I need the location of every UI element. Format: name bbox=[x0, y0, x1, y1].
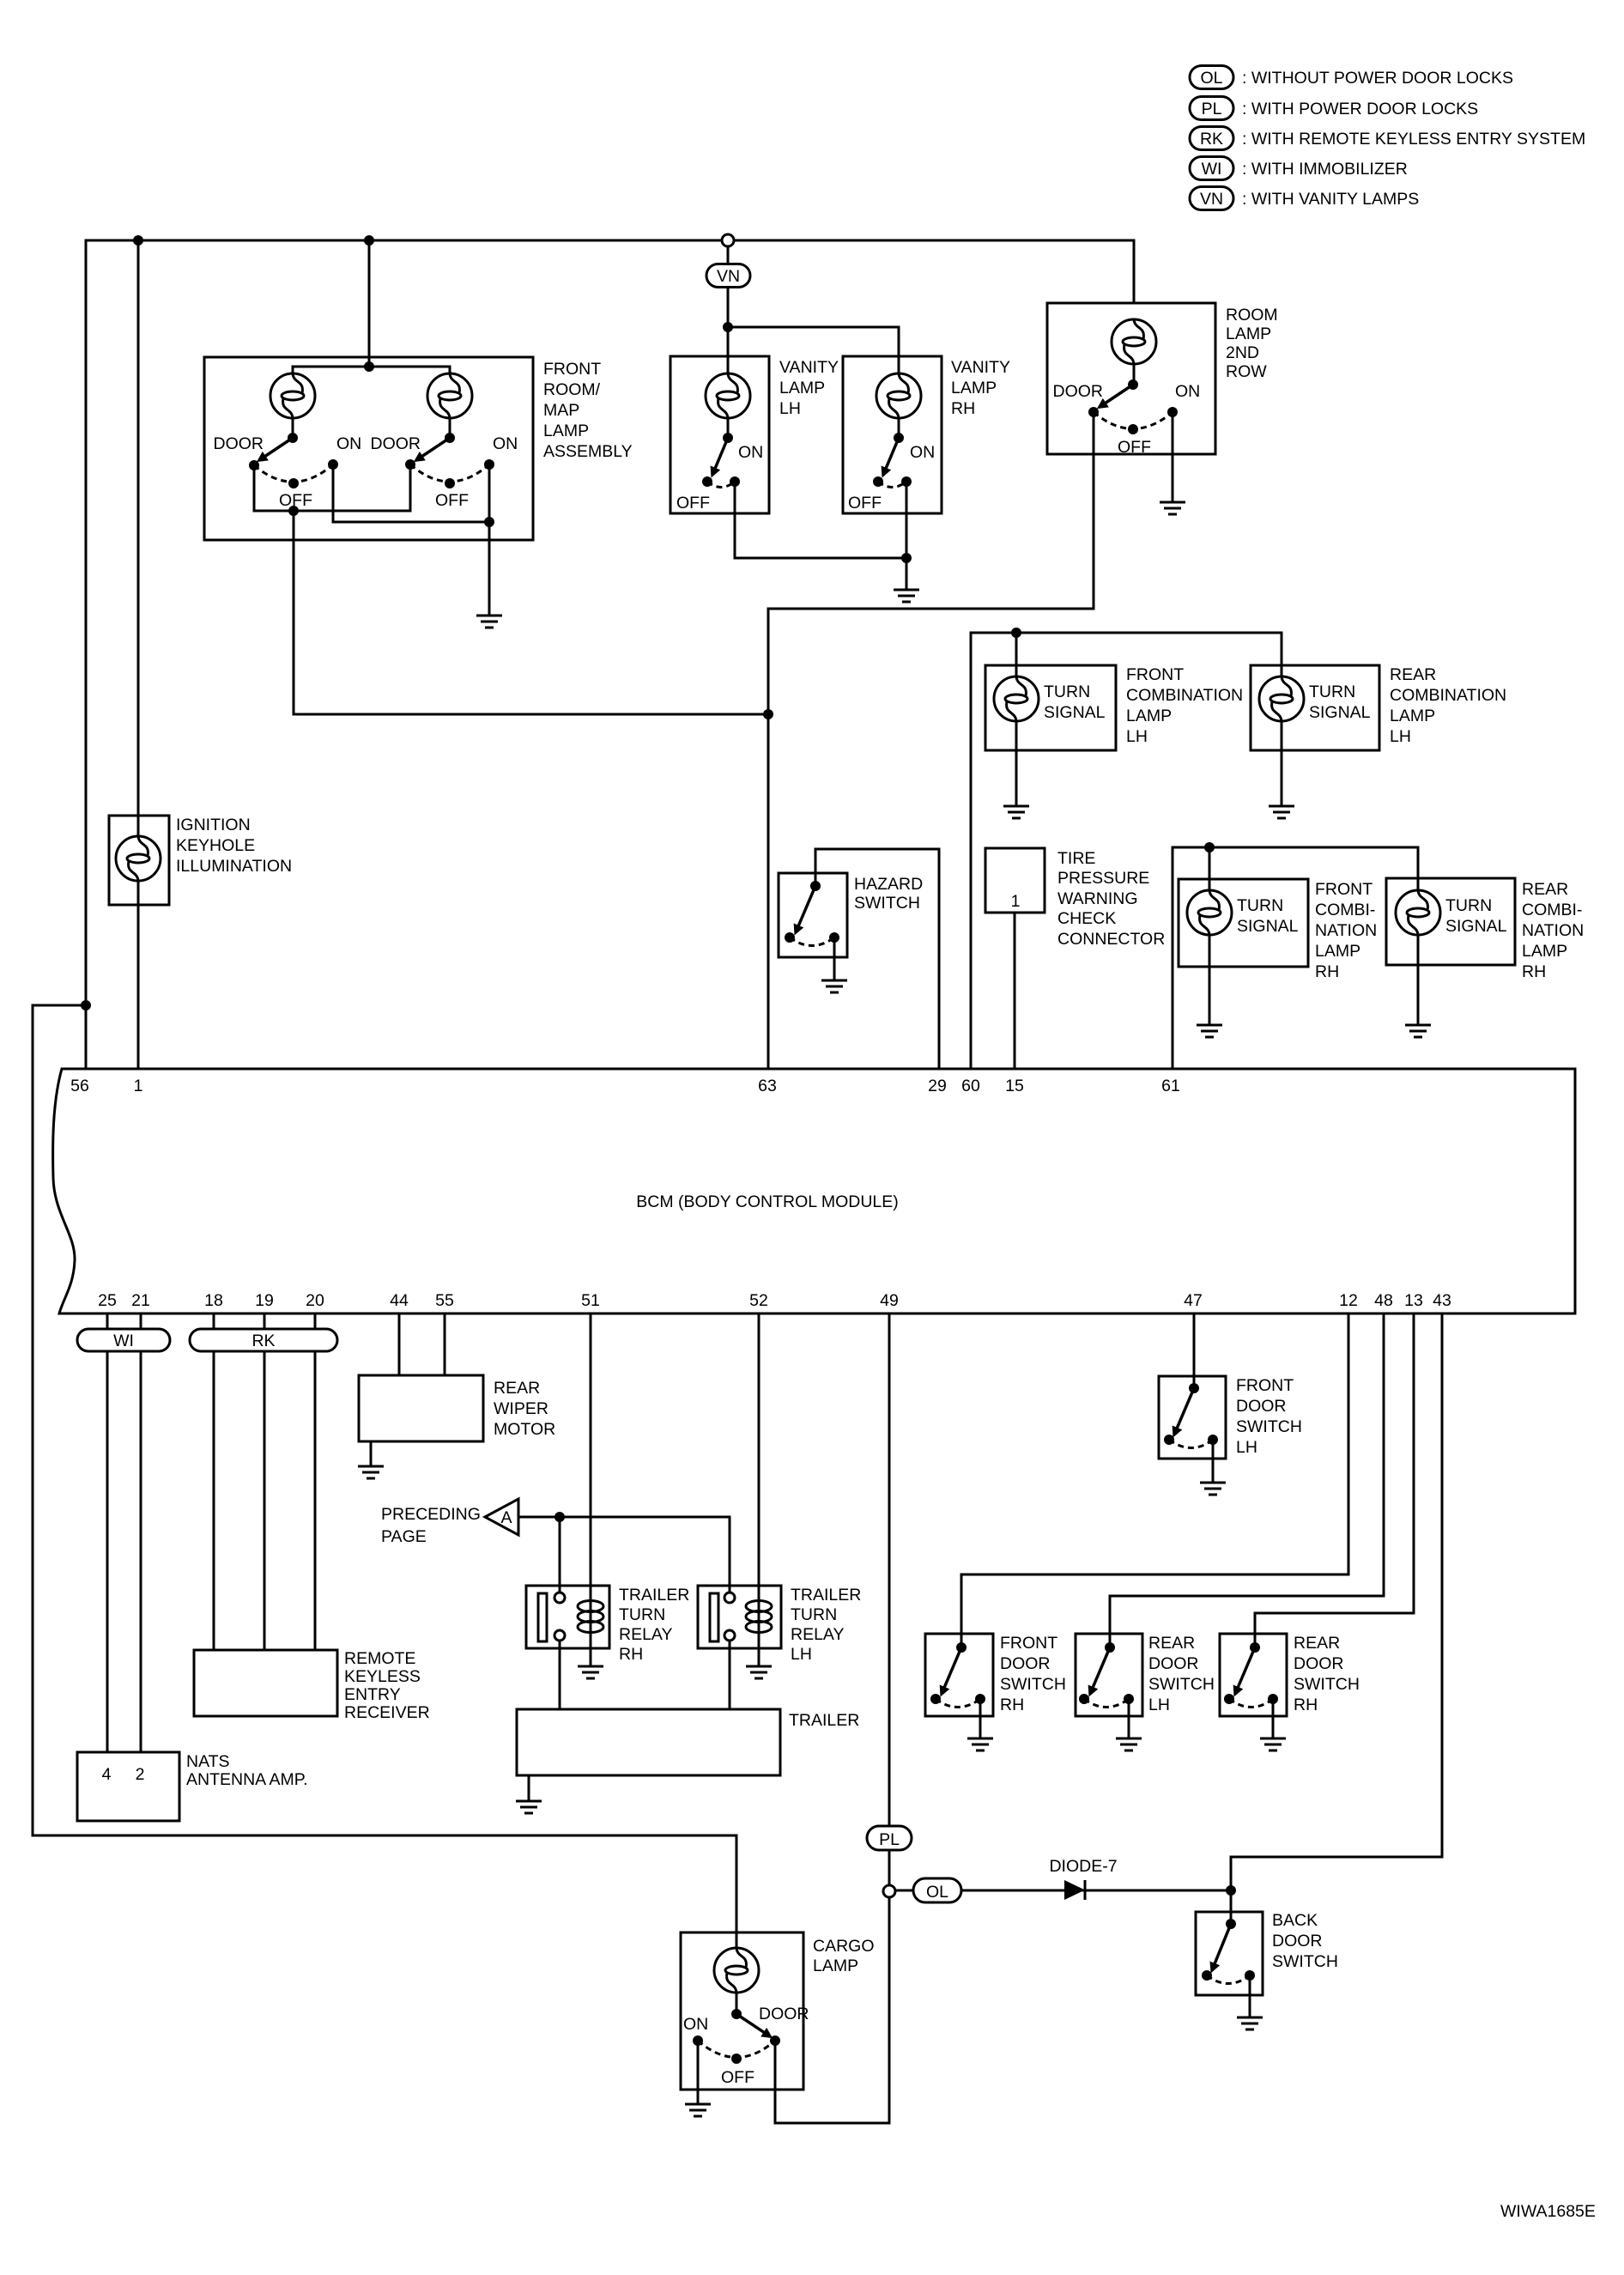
svg-text:PRESSURE: PRESSURE bbox=[1057, 869, 1149, 888]
option symbol OL bbox=[1190, 66, 1233, 89]
rear door switch RH box bbox=[1220, 1634, 1287, 1716]
node map LH OFF contact bbox=[288, 478, 299, 488]
svg-text:19: 19 bbox=[255, 1291, 274, 1310]
switch front door LH dashed throw bbox=[1169, 1440, 1213, 1448]
label rear wiper motor bbox=[494, 1379, 555, 1439]
svg-text:ENTRY: ENTRY bbox=[344, 1685, 401, 1704]
wire pin 48 to rear door switch LH bbox=[1110, 1313, 1384, 1647]
diode D7 bbox=[1064, 1880, 1085, 1900]
svg-text:: WITH POWER DOOR LOCKS: : WITH POWER DOOR LOCKS bbox=[1242, 100, 1478, 118]
wire front room/map lamp feed bbox=[368, 240, 371, 367]
svg-text:DOOR: DOOR bbox=[1053, 382, 1104, 401]
node front door LH common bbox=[1189, 1383, 1199, 1393]
svg-text:RH: RH bbox=[1522, 962, 1546, 981]
svg-text:TURN: TURN bbox=[619, 1605, 665, 1624]
svg-text:REAR: REAR bbox=[1390, 665, 1436, 684]
svg-text:LAMP: LAMP bbox=[1126, 707, 1172, 725]
label front door switch LH bbox=[1236, 1376, 1302, 1457]
svg-text:NATION: NATION bbox=[1315, 921, 1377, 940]
svg-text:A: A bbox=[500, 1508, 512, 1527]
lamp map LH bbox=[270, 373, 315, 418]
switch back door dashed throw bbox=[1207, 1975, 1250, 1984]
wire map DOOR contacts bus bbox=[254, 464, 410, 511]
label front door switch RH bbox=[1000, 1634, 1066, 1714]
switch map LH dashed throw bbox=[254, 464, 333, 482]
svg-text:OFF: OFF bbox=[435, 491, 469, 510]
switch vanity LH lever bbox=[712, 438, 728, 475]
relay LH top contact bbox=[724, 1592, 735, 1603]
relay RH contact bar bbox=[538, 1593, 547, 1641]
switch front door RH lever bbox=[942, 1647, 961, 1694]
svg-text:MAP: MAP bbox=[543, 401, 579, 420]
svg-text:TURN: TURN bbox=[1237, 896, 1283, 915]
wire trailer ground lead bbox=[528, 1775, 530, 1801]
rear combination lamp LH box bbox=[1251, 665, 1379, 750]
svg-text:LAMP: LAMP bbox=[1390, 707, 1435, 725]
svg-text:RK: RK bbox=[1200, 130, 1223, 149]
switch front door RH dashed throw bbox=[936, 1699, 980, 1708]
ground relay RH coil bbox=[578, 1666, 603, 1678]
svg-text:OL: OL bbox=[926, 1883, 948, 1902]
svg-text:RH: RH bbox=[1000, 1696, 1024, 1714]
svg-text:DOOR: DOOR bbox=[1294, 1654, 1344, 1673]
label hazard switch bbox=[854, 875, 923, 913]
svg-text:OFF: OFF bbox=[676, 494, 710, 513]
node map ON ground junction bbox=[484, 517, 494, 527]
svg-text:TURN: TURN bbox=[1309, 682, 1355, 701]
ground map lamp assembly bbox=[476, 616, 502, 628]
svg-text:RELAY: RELAY bbox=[791, 1625, 845, 1644]
wire pin 18 to keyless receiver bbox=[213, 1313, 215, 1650]
wire front turn LH ground lead bbox=[1015, 721, 1018, 806]
node vanity LH ON contact bbox=[730, 476, 740, 487]
node pin63 junction bbox=[763, 709, 773, 719]
switch cargo dashed throw bbox=[698, 2041, 775, 2058]
svg-text:CONNECTOR: CONNECTOR bbox=[1057, 930, 1165, 949]
wire rear turn RH ground lead bbox=[1417, 935, 1420, 1025]
wire relay RH contact feed bbox=[559, 1517, 561, 1592]
switch rear door LH lever bbox=[1090, 1647, 1110, 1694]
svg-text:WARNING: WARNING bbox=[1057, 889, 1138, 908]
wire pin 13 to rear door switch RH bbox=[1255, 1313, 1414, 1647]
ground front door switch LH bbox=[1200, 1483, 1226, 1495]
svg-text:ILLUMINATION: ILLUMINATION bbox=[176, 857, 292, 876]
node room DOOR contact bbox=[1088, 407, 1099, 417]
connector RK bbox=[190, 1329, 337, 1351]
node turn RH junction bbox=[1204, 842, 1215, 852]
wire map LH lamp to switch bbox=[292, 418, 294, 438]
node front door RH common bbox=[956, 1642, 967, 1653]
svg-text:LH: LH bbox=[791, 1645, 812, 1664]
switch map LH lever bbox=[259, 438, 293, 460]
svg-text:FRONT: FRONT bbox=[1315, 880, 1373, 899]
node back door common bbox=[1226, 1919, 1236, 1929]
svg-text:COMBI-: COMBI- bbox=[1522, 901, 1582, 919]
wire pin 61 to turn signal RH bus bbox=[1173, 847, 1418, 1069]
svg-text:VN: VN bbox=[1200, 190, 1223, 209]
wire junction to back door switch bbox=[1230, 1890, 1233, 1924]
svg-text:DOOR: DOOR bbox=[1272, 1932, 1323, 1950]
wire room lamp DOOR output / pin 63 riser bbox=[768, 412, 1094, 1069]
wire pin 49 to PL connector bbox=[888, 1313, 891, 1885]
option symbol PL bbox=[1190, 97, 1233, 120]
svg-text:DOOR: DOOR bbox=[371, 434, 421, 453]
svg-text:48: 48 bbox=[1374, 1291, 1393, 1310]
svg-text:PRECEDING: PRECEDING bbox=[381, 1505, 481, 1524]
svg-text:TRAILER: TRAILER bbox=[791, 1586, 861, 1605]
svg-text:RECEIVER: RECEIVER bbox=[344, 1703, 430, 1722]
node front door LH left contact bbox=[1164, 1435, 1174, 1445]
svg-text:: WITHOUT POWER DOOR LOCKS: : WITHOUT POWER DOOR LOCKS bbox=[1242, 69, 1513, 88]
svg-text:REAR: REAR bbox=[1294, 1634, 1340, 1653]
wire map ON contacts bus bbox=[333, 464, 489, 522]
ground front turn RH bbox=[1197, 1025, 1222, 1037]
svg-text:COMBINATION: COMBINATION bbox=[1126, 686, 1243, 705]
label tire pressure warning check connector bbox=[1057, 849, 1165, 949]
wire vanity RH lamp to switch bbox=[898, 418, 900, 438]
label rear door switch RH bbox=[1294, 1634, 1360, 1714]
node diode junction bbox=[1226, 1885, 1236, 1896]
svg-text:61: 61 bbox=[1161, 1077, 1180, 1095]
lamp rear turn signal RH bbox=[1396, 890, 1440, 935]
label NATS antenna amp bbox=[186, 1752, 308, 1789]
trailer turn relay RH box bbox=[526, 1586, 609, 1648]
svg-text:TURN: TURN bbox=[1044, 682, 1090, 701]
wire room lamp to switch bbox=[1133, 364, 1136, 385]
node map RH DOOR contact bbox=[405, 459, 415, 470]
svg-text:: WITH VANITY LAMPS: : WITH VANITY LAMPS bbox=[1242, 190, 1419, 209]
svg-text:REAR: REAR bbox=[1148, 1634, 1195, 1653]
ground rear door switch LH bbox=[1116, 1738, 1142, 1750]
svg-text:LH: LH bbox=[779, 399, 801, 418]
node rear door RH left contact bbox=[1224, 1694, 1234, 1704]
node front door RH left contact bbox=[930, 1694, 941, 1704]
ground rear wiper motor bbox=[358, 1466, 384, 1478]
lamp ignition keyhole bbox=[116, 836, 161, 881]
node room ON contact bbox=[1167, 407, 1178, 417]
node map lamp feed junction bbox=[364, 361, 374, 372]
wire map ON ground lead bbox=[488, 522, 491, 616]
wire pin 19 to keyless receiver bbox=[264, 1313, 266, 1650]
switch cargo lever bbox=[736, 2014, 770, 2036]
switch front door LH lever bbox=[1174, 1388, 1194, 1435]
svg-text:SIGNAL: SIGNAL bbox=[1044, 703, 1106, 722]
relay LH bottom contact bbox=[724, 1630, 735, 1641]
svg-text:REMOTE: REMOTE bbox=[344, 1649, 415, 1668]
switch vanity RH lever bbox=[883, 438, 899, 475]
node map RH switch common bbox=[445, 433, 455, 443]
label turn signal (front LH) bbox=[1044, 682, 1106, 722]
node rear door LH right contact bbox=[1124, 1694, 1134, 1704]
node vanity RH ON contact bbox=[901, 476, 912, 487]
svg-text:PL: PL bbox=[1202, 100, 1222, 118]
svg-text:43: 43 bbox=[1433, 1291, 1451, 1310]
node front door LH right contact bbox=[1208, 1435, 1218, 1445]
wire room ON ground lead bbox=[1172, 412, 1174, 502]
option symbol WI bbox=[1190, 157, 1233, 180]
node PL-OL connector circle bbox=[883, 1885, 895, 1897]
label preceding page bbox=[381, 1505, 481, 1546]
svg-text:60: 60 bbox=[961, 1077, 980, 1095]
svg-text:SIGNAL: SIGNAL bbox=[1309, 703, 1371, 722]
svg-text:SWITCH: SWITCH bbox=[1236, 1417, 1302, 1436]
wire cargo lamp to switch bbox=[736, 1993, 738, 2014]
wire rear door LH ground lead bbox=[1128, 1699, 1130, 1738]
ground cargo lamp bbox=[685, 2104, 711, 2116]
svg-text:ON: ON bbox=[1175, 382, 1200, 401]
label rear door switch LH bbox=[1148, 1634, 1215, 1714]
NATS antenna amp box bbox=[77, 1752, 179, 1821]
relay LH contact bar bbox=[710, 1593, 718, 1641]
vanity lamp LH box bbox=[670, 356, 769, 513]
node bus-pin1 junction bbox=[133, 235, 143, 246]
svg-text:2: 2 bbox=[136, 1765, 145, 1784]
svg-text:44: 44 bbox=[390, 1291, 409, 1310]
svg-text:: WITH IMMOBILIZER: : WITH IMMOBILIZER bbox=[1242, 160, 1408, 179]
svg-text:TURN: TURN bbox=[1445, 896, 1492, 915]
wire junction to pin 43 bbox=[1231, 1313, 1442, 1890]
ground rear door switch RH bbox=[1260, 1738, 1286, 1750]
node vanity branch junction bbox=[723, 322, 733, 332]
svg-text:RH: RH bbox=[1315, 962, 1339, 981]
wire map lamp DOOR output to BCM pin 63 bbox=[294, 511, 768, 714]
label room lamp 2nd row bbox=[1226, 306, 1278, 381]
wire relay LH contact to trailer bbox=[729, 1641, 731, 1709]
label turn signal (rear LH) bbox=[1309, 682, 1371, 722]
BCM body control module box bbox=[53, 1069, 1575, 1313]
front door switch LH box bbox=[1159, 1376, 1226, 1459]
svg-text:REAR: REAR bbox=[494, 1379, 540, 1398]
svg-text:SWITCH: SWITCH bbox=[1294, 1675, 1360, 1694]
switch map RH dashed throw bbox=[410, 464, 489, 482]
svg-text:RH: RH bbox=[619, 1645, 643, 1664]
LEGEND bbox=[1190, 66, 1585, 210]
svg-text:55: 55 bbox=[435, 1291, 454, 1310]
svg-text:LAMP: LAMP bbox=[951, 379, 997, 397]
node bus connector circle bbox=[722, 234, 734, 246]
ground vanity lamps bbox=[894, 590, 919, 602]
svg-text:LAMP: LAMP bbox=[543, 422, 589, 440]
label turn signal (front RH) bbox=[1237, 896, 1299, 936]
svg-text:ROOM/: ROOM/ bbox=[543, 380, 601, 399]
wire front turn RH tap bbox=[1209, 847, 1211, 890]
wire hazard switch ground lead bbox=[833, 937, 836, 980]
wire vanity RH output to ground bbox=[906, 482, 908, 590]
wire rear turn LH ground lead bbox=[1281, 721, 1283, 806]
svg-text:20: 20 bbox=[306, 1291, 324, 1310]
svg-text:PAGE: PAGE bbox=[381, 1527, 427, 1546]
switch room lamp lever bbox=[1100, 385, 1133, 407]
lamp front turn signal RH bbox=[1187, 890, 1232, 935]
svg-text:NATION: NATION bbox=[1522, 921, 1584, 940]
svg-text:DOOR: DOOR bbox=[214, 434, 264, 453]
svg-text:LAMP: LAMP bbox=[779, 379, 825, 397]
node rear door RH right contact bbox=[1268, 1694, 1278, 1704]
label trailer turn relay RH bbox=[619, 1586, 689, 1664]
node back door right contact bbox=[1245, 1970, 1255, 1981]
wire pin 56 branch to cargo lamp rail bbox=[33, 1005, 736, 1948]
svg-text:12: 12 bbox=[1339, 1291, 1358, 1310]
svg-text:63: 63 bbox=[758, 1077, 777, 1095]
svg-text:2ND: 2ND bbox=[1226, 343, 1259, 362]
svg-text:VANITY: VANITY bbox=[951, 358, 1010, 377]
svg-text:DOOR: DOOR bbox=[1236, 1397, 1287, 1416]
wire front door RH ground lead bbox=[979, 1699, 982, 1738]
svg-text:ON: ON bbox=[336, 434, 361, 453]
node hazard left contact bbox=[785, 932, 795, 943]
svg-text:WI: WI bbox=[1202, 160, 1222, 179]
lamp map RH bbox=[427, 373, 472, 418]
wire back door switch ground lead bbox=[1249, 1975, 1251, 2017]
remote keyless entry receiver box bbox=[194, 1650, 337, 1716]
svg-text:OFF: OFF bbox=[721, 2068, 754, 2087]
node map RH OFF contact bbox=[445, 478, 455, 488]
label vanity lamp RH bbox=[951, 358, 1010, 418]
hazard switch box bbox=[779, 873, 847, 957]
svg-text:25: 25 bbox=[98, 1291, 117, 1310]
label back door switch bbox=[1272, 1911, 1338, 1971]
wire map lamp internal feed bar bbox=[293, 367, 450, 373]
node cargo ON contact bbox=[693, 2035, 703, 2046]
front combination lamp LH box bbox=[985, 665, 1116, 750]
svg-text:PL: PL bbox=[879, 1830, 900, 1849]
vanity lamp RH box bbox=[843, 356, 942, 513]
svg-text:TRAILER: TRAILER bbox=[619, 1586, 689, 1605]
svg-text:RELAY: RELAY bbox=[619, 1625, 673, 1644]
svg-text:SWITCH: SWITCH bbox=[1272, 1952, 1338, 1971]
ground trailer bbox=[516, 1801, 542, 1813]
connector OL bbox=[913, 1878, 961, 1902]
svg-text:OFF: OFF bbox=[1118, 438, 1151, 457]
svg-text:TURN: TURN bbox=[791, 1605, 837, 1624]
back door switch box bbox=[1196, 1912, 1263, 1995]
svg-text:LAMP: LAMP bbox=[1315, 942, 1360, 961]
svg-text:RH: RH bbox=[1294, 1696, 1318, 1714]
wire pin 51 to trailer turn relay RH coil bbox=[590, 1313, 592, 1666]
svg-text:HAZARD: HAZARD bbox=[854, 875, 923, 894]
wire pin 52 to trailer turn relay LH coil bbox=[758, 1313, 760, 1666]
switch rear door RH dashed throw bbox=[1229, 1699, 1273, 1708]
ground rear turn LH bbox=[1269, 806, 1294, 818]
connector triangle A bbox=[485, 1499, 518, 1535]
svg-text:LH: LH bbox=[1236, 1438, 1257, 1457]
svg-text:DOOR: DOOR bbox=[1148, 1654, 1199, 1673]
front room/map lamp assembly box bbox=[204, 357, 533, 540]
rear door switch LH box bbox=[1076, 1634, 1142, 1716]
svg-text:SWITCH: SWITCH bbox=[1000, 1675, 1066, 1694]
ground back door switch bbox=[1237, 2017, 1263, 2029]
relay LH coil bbox=[746, 1601, 772, 1633]
label trailer turn relay LH bbox=[791, 1586, 861, 1664]
lamp vanity LH bbox=[706, 373, 750, 418]
svg-text:WI: WI bbox=[113, 1332, 134, 1350]
switch map RH lever bbox=[416, 438, 450, 460]
svg-text:SWITCH: SWITCH bbox=[1148, 1675, 1215, 1694]
svg-text:18: 18 bbox=[204, 1291, 223, 1310]
wire front turn LH tap bbox=[1015, 633, 1018, 676]
label cargo lamp bbox=[813, 1937, 875, 1975]
svg-text:SWITCH: SWITCH bbox=[854, 894, 920, 913]
svg-text:IGNITION: IGNITION bbox=[176, 816, 251, 834]
connector PL bbox=[867, 1826, 912, 1850]
ground rear turn RH bbox=[1405, 1025, 1431, 1037]
wire pin 12 to front door switch RH bbox=[961, 1313, 1348, 1647]
svg-text:KEYLESS: KEYLESS bbox=[344, 1667, 421, 1686]
svg-text:COMBINATION: COMBINATION bbox=[1390, 686, 1506, 705]
relay RH bottom contact bbox=[554, 1630, 565, 1641]
wire map RH lamp to switch bbox=[449, 418, 451, 438]
wire pin 20 to keyless receiver bbox=[314, 1313, 317, 1650]
node vanity ground junction bbox=[901, 553, 912, 563]
svg-text:LAMP: LAMP bbox=[1226, 325, 1271, 343]
lamp vanity RH bbox=[876, 373, 921, 418]
cargo lamp box bbox=[681, 1932, 803, 2090]
node cargo DOOR contact bbox=[770, 2035, 780, 2046]
wire pin 21 to NATS bbox=[140, 1313, 142, 1752]
svg-text:RH: RH bbox=[951, 399, 975, 418]
node map LH ON contact bbox=[328, 459, 338, 470]
node rear door RH common bbox=[1250, 1642, 1260, 1653]
svg-text:LH: LH bbox=[1126, 727, 1148, 746]
svg-text:WIPER: WIPER bbox=[494, 1399, 548, 1418]
node rear door LH common bbox=[1105, 1642, 1115, 1653]
svg-text:FRONT: FRONT bbox=[1236, 1376, 1294, 1395]
svg-text:NATS: NATS bbox=[186, 1752, 230, 1771]
svg-text:TRAILER: TRAILER bbox=[789, 1711, 859, 1730]
svg-text:VANITY: VANITY bbox=[779, 358, 839, 377]
ground front door switch RH bbox=[967, 1738, 993, 1750]
label front combination lamp RH bbox=[1315, 880, 1377, 981]
node map RH ON contact bbox=[484, 459, 494, 470]
ground hazard switch bbox=[821, 980, 847, 992]
switch room dashed throw bbox=[1094, 412, 1173, 429]
svg-text:OFF: OFF bbox=[848, 494, 882, 513]
svg-text:OL: OL bbox=[1200, 69, 1222, 88]
label vanity lamp LH bbox=[779, 358, 839, 418]
wire preceding page A line bbox=[518, 1517, 730, 1592]
switch hazard lever bbox=[796, 886, 815, 932]
wire OL branch to diode and back door bbox=[895, 1890, 1231, 1892]
svg-text:21: 21 bbox=[131, 1291, 150, 1310]
wire pin 29 to hazard switch bbox=[815, 849, 939, 1069]
node back door left contact bbox=[1202, 1970, 1212, 1981]
wire power bus top / pin 56 feed bbox=[86, 240, 1134, 1069]
option symbol VN bbox=[1190, 187, 1233, 210]
front door switch RH box bbox=[925, 1634, 993, 1716]
svg-text:: WITH REMOTE KEYLESS ENTRY SY: : WITH REMOTE KEYLESS ENTRY SYSTEM bbox=[1242, 130, 1585, 149]
svg-text:29: 29 bbox=[928, 1077, 947, 1095]
node rear door LH left contact bbox=[1079, 1694, 1089, 1704]
svg-text:WIWA1685E: WIWA1685E bbox=[1500, 2202, 1596, 2221]
wire vanity drop from connector bbox=[727, 246, 730, 327]
node bus-maplamp junction bbox=[364, 235, 374, 246]
switch rear door LH dashed throw bbox=[1084, 1699, 1129, 1708]
relay RH top contact bbox=[554, 1592, 565, 1603]
connector WI bbox=[77, 1329, 170, 1351]
node vanity LH switch common bbox=[723, 433, 733, 443]
svg-text:BACK: BACK bbox=[1272, 1911, 1318, 1930]
node cargo switch common bbox=[731, 2009, 742, 2019]
wire pin 44 to rear wiper motor bbox=[398, 1313, 401, 1375]
node front door RH right contact bbox=[975, 1694, 985, 1704]
relay RH coil bbox=[578, 1601, 603, 1633]
svg-text:LAMP: LAMP bbox=[813, 1956, 858, 1975]
node vanity LH OFF contact bbox=[702, 476, 712, 487]
svg-text:CARGO: CARGO bbox=[813, 1937, 875, 1956]
label rear combination lamp RH bbox=[1522, 880, 1584, 981]
svg-text:15: 15 bbox=[1005, 1077, 1024, 1095]
wire pin 60 to turn signal LH bus bbox=[971, 633, 1282, 1069]
